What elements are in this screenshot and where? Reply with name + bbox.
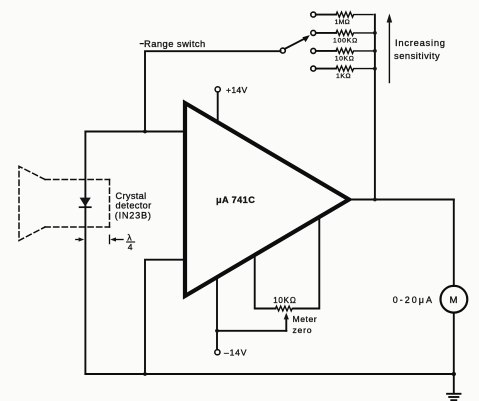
wire: inverting input bbox=[85, 131, 185, 133]
svg-text:sensitivity: sensitivity bbox=[394, 50, 440, 61]
node: bus dot 10K bbox=[373, 49, 377, 53]
switch SW1 wiper arm bbox=[285, 38, 307, 49]
svg-text:4: 4 bbox=[128, 242, 133, 252]
svg-text:μA 741C: μA 741C bbox=[216, 195, 255, 205]
label tick: Range switch leader bbox=[140, 43, 143, 45]
svg-text:Crystal: Crystal bbox=[116, 191, 147, 201]
switch SW1 wiper arrowhead bbox=[302, 35, 309, 42]
svg-text:–14V: –14V bbox=[224, 348, 247, 358]
ground bbox=[447, 374, 460, 400]
svg-text:1KΩ: 1KΩ bbox=[336, 73, 351, 80]
node: bus dot 1K bbox=[373, 67, 377, 71]
svg-text:10KΩ: 10KΩ bbox=[335, 55, 355, 62]
wire: op-amp output bbox=[349, 199, 454, 201]
svg-text:detector: detector bbox=[116, 201, 152, 211]
potentiometer R5 10KΩ meter zero bbox=[217, 217, 319, 335]
switch SW1 pole bbox=[280, 48, 285, 53]
svg-text:+14V: +14V bbox=[226, 85, 248, 95]
wire: bottom rail bbox=[85, 373, 453, 375]
svg-text:M: M bbox=[450, 295, 458, 306]
node: output junction dot bbox=[373, 198, 377, 202]
node: junction dot at inverting input bbox=[143, 130, 147, 134]
switch contact 1 (1M row) bbox=[311, 12, 316, 17]
resistor R4 1KΩ bbox=[316, 66, 373, 80]
svg-text:10KΩ: 10KΩ bbox=[273, 296, 296, 305]
svg-text:Increasing: Increasing bbox=[395, 37, 446, 48]
svg-text:λ: λ bbox=[127, 232, 132, 242]
label: Crystal detector (IN23B) bbox=[115, 191, 152, 221]
switch contact 3 (10K row) bbox=[311, 48, 316, 53]
crystal detector horn (dashed) bbox=[19, 166, 110, 240]
svg-text:zero: zero bbox=[293, 325, 313, 335]
wire: meter to bottom rail bbox=[453, 313, 455, 374]
node: junction dot bottom of non-inv leg bbox=[143, 372, 147, 376]
node: bottom-right junction dot bbox=[452, 372, 456, 376]
svg-text:Meter: Meter bbox=[293, 314, 318, 324]
node: bus dot 100K bbox=[373, 31, 377, 35]
svg-text:100KΩ: 100KΩ bbox=[333, 38, 358, 45]
resistor R1 1MΩ bbox=[316, 12, 373, 26]
arrow: increasing sensitivity bbox=[387, 14, 446, 83]
op-amp U1 μA741C body bbox=[185, 103, 349, 296]
resistor R2 100KΩ bbox=[316, 30, 373, 44]
terminal -14V bbox=[215, 278, 247, 358]
wire: range switch horizontal feed bbox=[145, 51, 281, 131]
resistor R3 10KΩ bbox=[316, 48, 373, 62]
wire: meter branch down bbox=[453, 200, 455, 287]
wire: feedback bus vertical bbox=[374, 15, 376, 200]
meter M1 bbox=[393, 286, 468, 313]
switch contact 4 (1K row) bbox=[311, 66, 316, 71]
svg-text:0-20μA: 0-20μA bbox=[393, 295, 434, 305]
diode D1 (crystal) bbox=[80, 198, 91, 208]
svg-text:1MΩ: 1MΩ bbox=[335, 19, 350, 26]
dimension λ/4 bbox=[76, 232, 135, 252]
wire: left vertical (detector line) bbox=[84, 132, 86, 375]
terminal +14V bbox=[215, 85, 247, 123]
switch contact 2 (100K row) bbox=[311, 30, 316, 35]
wire: non-inverting input bbox=[145, 260, 185, 374]
svg-text:Range switch: Range switch bbox=[144, 38, 206, 49]
svg-text:(IN23B): (IN23B) bbox=[115, 210, 152, 220]
